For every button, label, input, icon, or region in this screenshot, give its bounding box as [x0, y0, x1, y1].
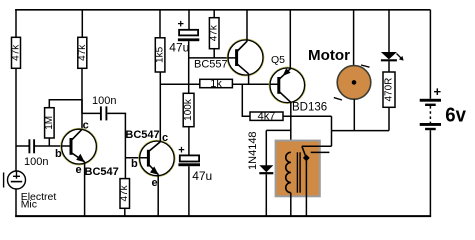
- wire R6 bottom to Q3 base wire: [213, 49, 215, 58]
- wire Q1 collector to C2: [81, 99, 83, 113]
- wire relay common to ground: [305, 158, 307, 216]
- svg-text:Q5: Q5: [271, 54, 285, 66]
- diode D1 1N4148: [259, 130, 273, 215]
- svg-text:100k: 100k: [183, 98, 194, 121]
- wire rail drop to R6: [213, 10, 215, 18]
- motor M1: [334, 65, 371, 100]
- svg-text:BC547: BC547: [85, 166, 119, 178]
- battery B1 6v: [420, 84, 442, 130]
- svg-text:e: e: [152, 177, 158, 189]
- electret microphone MIC1: [4, 171, 26, 189]
- svg-text:BC557: BC557: [194, 59, 228, 71]
- wire Q1 base left segment: [16, 145, 29, 147]
- transistor Q2 BC547: [139, 140, 175, 176]
- wire Q2 emitter to ground: [157, 174, 159, 215]
- wire C2 to Q2 base node: [107, 113, 125, 178]
- relay switch blade: [302, 146, 306, 158]
- svg-text:1k: 1k: [210, 78, 222, 90]
- wire 470R bottom: [388, 107, 390, 130]
- transistor Q5 BD136: [269, 67, 305, 103]
- svg-text:47k: 47k: [11, 44, 22, 61]
- svg-text:470R: 470R: [384, 78, 395, 102]
- wire motor bottom link: [332, 130, 390, 132]
- wire Q5 emitter to rail: [289, 10, 291, 69]
- wire relay NC contact stub: [311, 151, 330, 153]
- svg-text:1N4148: 1N4148: [247, 131, 259, 170]
- wire 1M top branch: [49, 100, 82, 108]
- capacitor C1 100n: [29, 139, 34, 153]
- resistor R9 4k7: [250, 111, 283, 123]
- wire relay coil bottom to ground: [290, 193, 292, 216]
- resistor R4 47k: [119, 179, 130, 209]
- svg-text:Motor: Motor: [308, 48, 350, 64]
- wire rail drop to R2: [81, 10, 83, 38]
- svg-text:Mic: Mic: [21, 199, 37, 211]
- svg-text:100n: 100n: [24, 156, 48, 168]
- wire node to Q5 base: [232, 83, 277, 85]
- svg-text:6v: 6v: [445, 104, 467, 126]
- LED D2: [381, 52, 404, 61]
- resistor R10 470R: [383, 72, 395, 107]
- wire LED to 470R: [388, 61, 390, 72]
- wire C4 to ground: [188, 166, 190, 215]
- svg-text:BD136: BD136: [292, 102, 327, 114]
- wire 1M bottom to base wire: [48, 138, 50, 146]
- wire top supply rail: [15, 9, 430, 11]
- wire 4k7 right to relay node: [283, 115, 332, 117]
- wire battery negative to ground rail: [429, 130, 431, 215]
- transistor Q3 BC557: [227, 39, 263, 75]
- svg-text:4k7: 4k7: [258, 111, 276, 123]
- wire C1 to Q1 base: [35, 145, 70, 147]
- relay RL1 body: [276, 141, 320, 197]
- wire diode top to coil node: [266, 129, 291, 131]
- svg-text:47u: 47u: [169, 41, 189, 55]
- svg-text:100n: 100n: [92, 95, 116, 107]
- wire mic to ground rail: [15, 189, 17, 216]
- transistor Q1 BC547: [61, 129, 97, 165]
- svg-text:c: c: [83, 120, 89, 132]
- svg-text:e: e: [76, 164, 82, 176]
- svg-text:47k: 47k: [77, 44, 88, 61]
- svg-text:+: +: [434, 84, 442, 99]
- capacitor C3 47u electrolytic: [178, 30, 199, 41]
- wire relay NO contact: [302, 145, 332, 147]
- relay armature pivot: [303, 155, 310, 162]
- wire R2 bottom to Q1 collector: [81, 68, 83, 129]
- capacitor C2 100n: [101, 106, 107, 120]
- svg-text:b: b: [131, 158, 138, 170]
- svg-text:47u: 47u: [192, 169, 212, 183]
- svg-text:47k: 47k: [119, 184, 130, 201]
- wire 100k bottom to C4: [188, 127, 190, 156]
- wire Q3 emitter to rail: [246, 10, 248, 42]
- resistor R7 100k: [183, 93, 194, 126]
- wire node line 1k5/47u/100k to 1k: [160, 83, 200, 85]
- wire C3 bottom / Q3 base node vertical: [188, 41, 190, 93]
- resistor R6 47k: [209, 18, 220, 49]
- svg-text:1M: 1M: [44, 116, 55, 130]
- wire R1 bottom to mic node: [15, 68, 17, 171]
- wire Q1 emitter to ground: [84, 162, 86, 216]
- wire bottom ground rail: [15, 215, 431, 217]
- svg-text:c: c: [162, 132, 168, 144]
- svg-text:47k: 47k: [209, 24, 220, 41]
- wire Q2 base: [125, 157, 147, 159]
- resistor R2 47k: [77, 37, 88, 68]
- wire R4 to ground: [124, 208, 126, 215]
- wire node down to 4k7: [242, 84, 250, 116]
- wire rail drop to R1: [15, 10, 17, 38]
- wire rail drop to R5: [159, 10, 161, 38]
- relay core: [296, 152, 298, 192]
- wire Q2 collector to R5: [159, 72, 161, 142]
- resistor R3 1M: [44, 108, 55, 138]
- svg-text:+: +: [178, 145, 184, 157]
- wire Q3 collector down to node: [248, 74, 250, 85]
- svg-text:b: b: [55, 148, 62, 160]
- svg-text:1k5: 1k5: [155, 46, 166, 63]
- wire Q5 collector to relay coil: [290, 102, 292, 152]
- wire rail drop to LED: [388, 10, 390, 53]
- capacitor C4 47u electrolytic: [178, 155, 200, 166]
- resistor R5 1k5: [155, 38, 166, 72]
- wire motor bottom: [353, 99, 355, 130]
- wire rail drop to C3: [188, 10, 190, 30]
- relay coil: [286, 152, 291, 192]
- svg-text:+: +: [178, 19, 184, 31]
- wire relay contact riser: [331, 116, 333, 146]
- svg-text:BC547: BC547: [125, 129, 159, 141]
- wire Q3 base: [189, 57, 236, 59]
- resistor R1 47k: [11, 37, 22, 68]
- resistor R8 1k: [200, 78, 233, 90]
- wire rail drop to motor: [353, 10, 355, 66]
- wire rail right end to battery: [429, 10, 431, 99]
